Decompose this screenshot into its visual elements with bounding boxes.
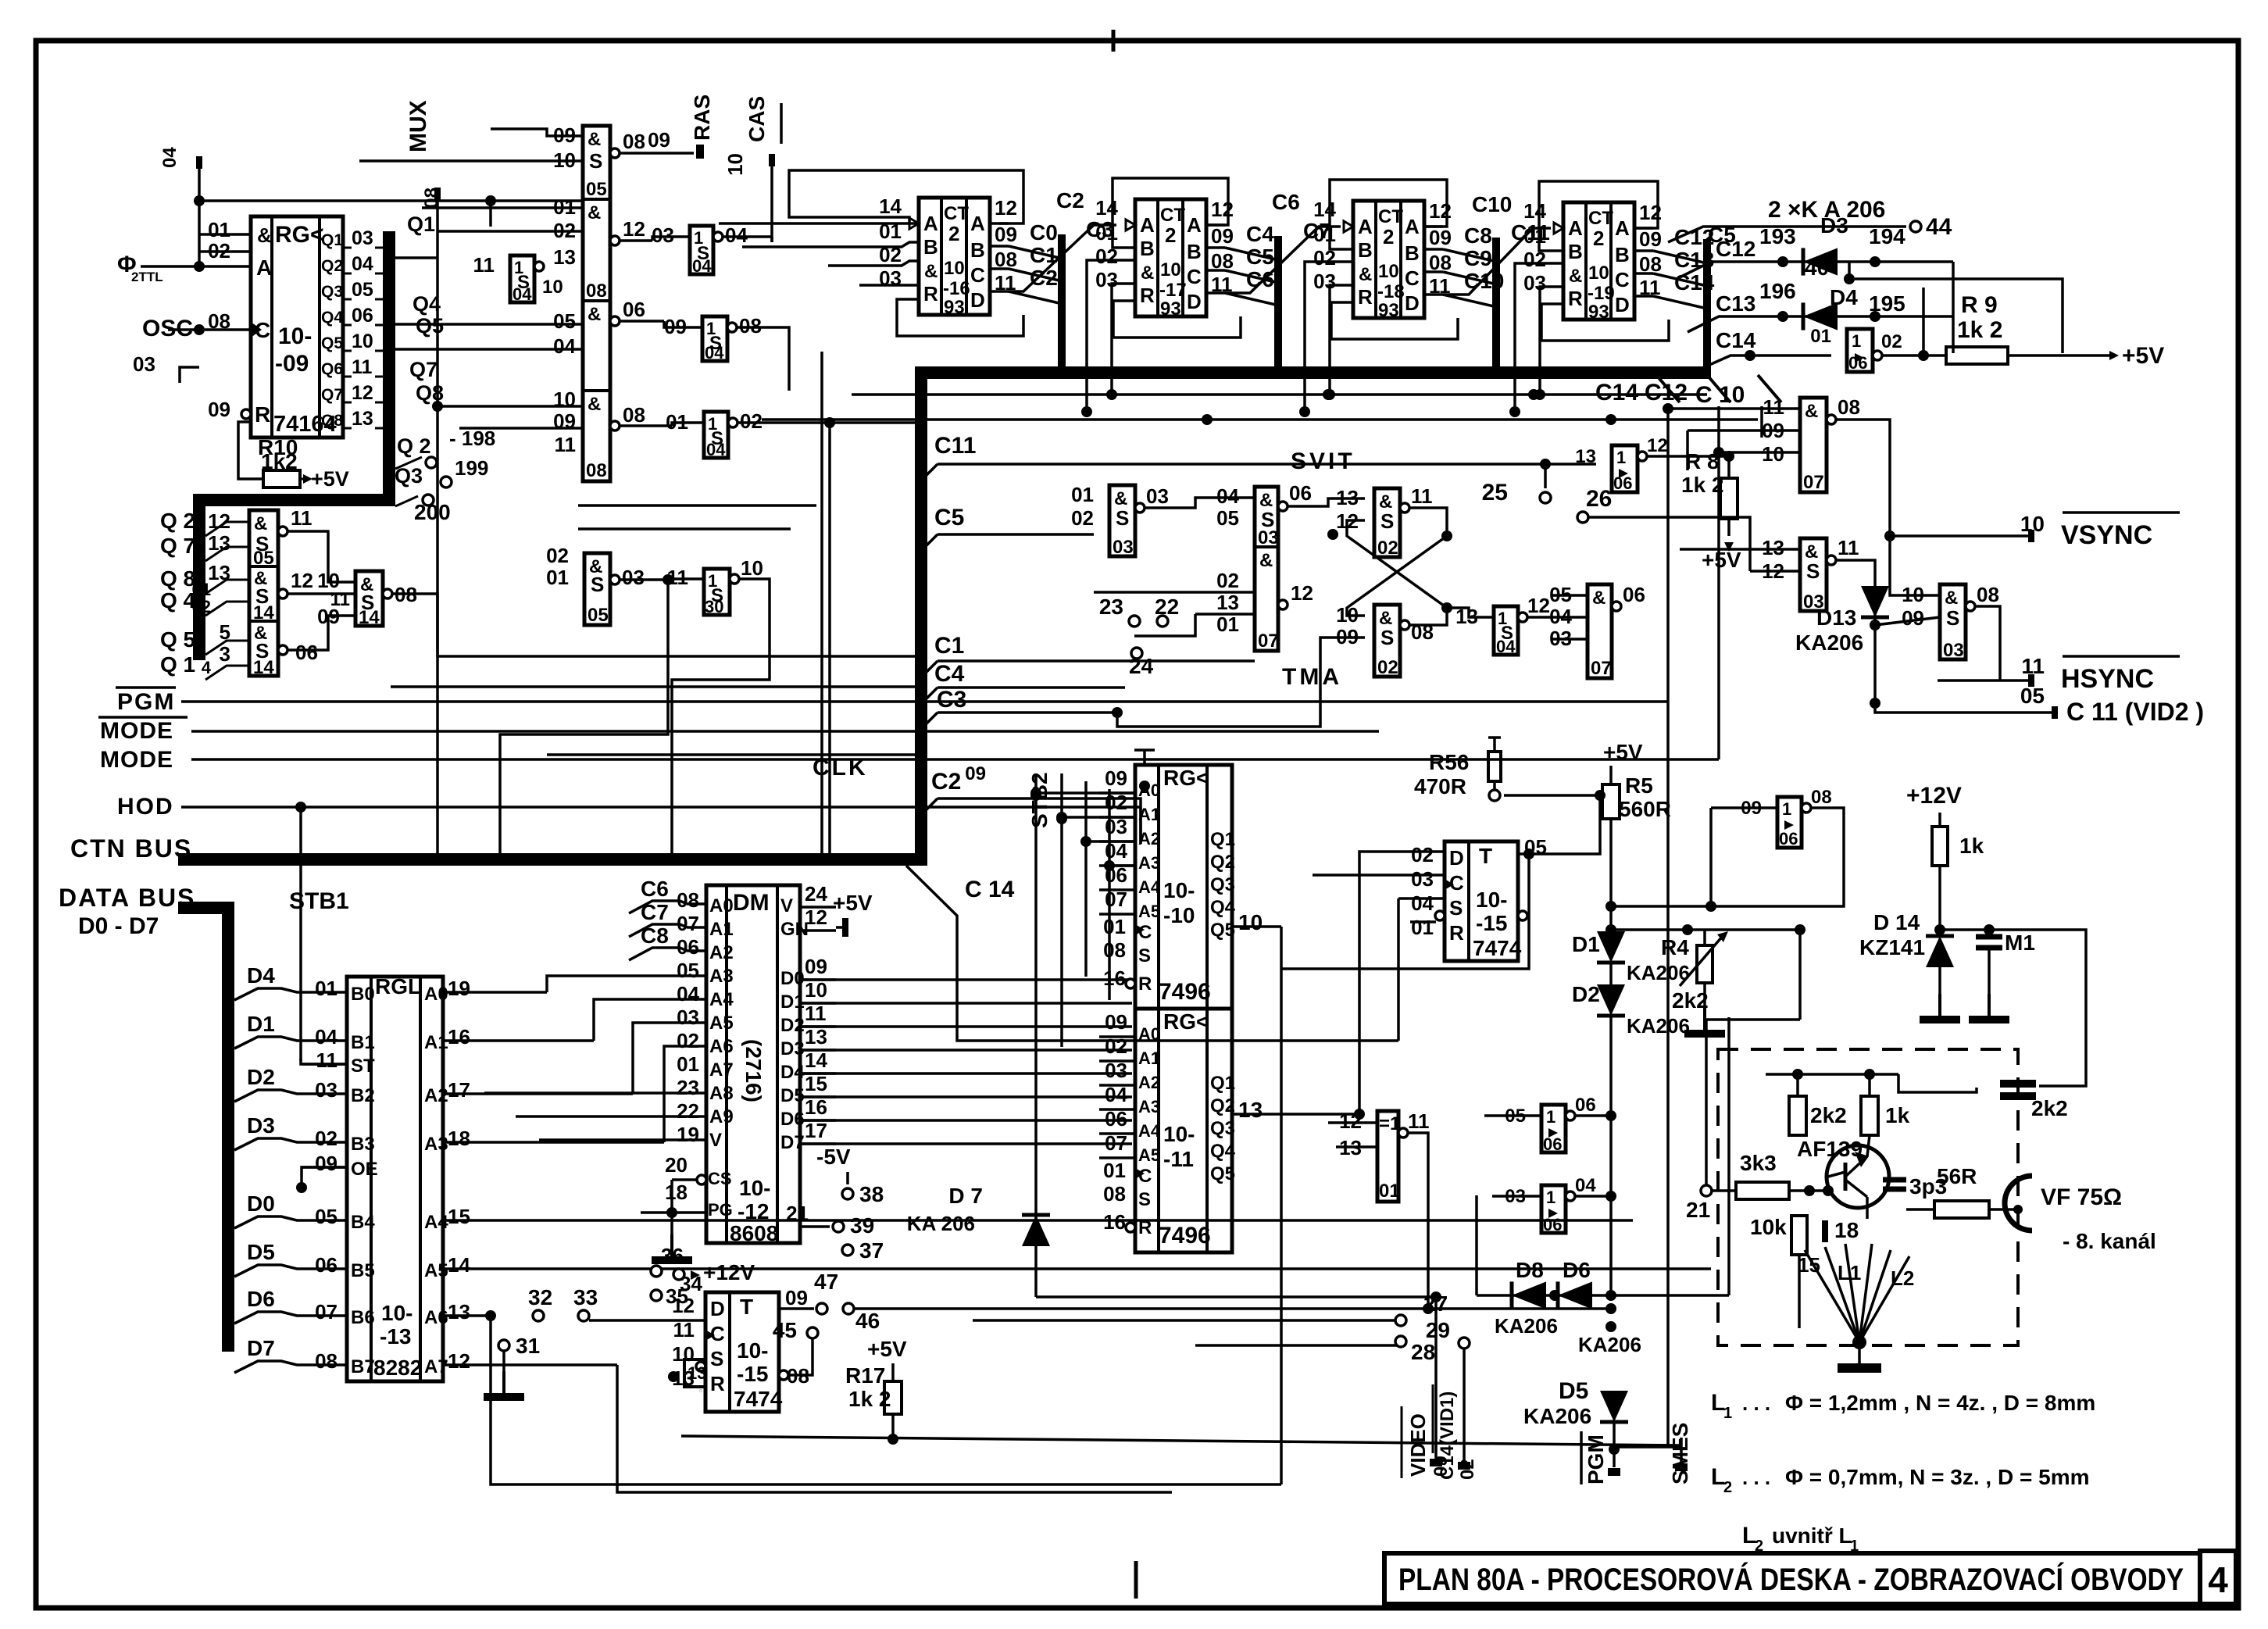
- svg-text:08: 08: [586, 460, 607, 481]
- svg-text:09: 09: [1429, 226, 1452, 249]
- svg-text:C8: C8: [1464, 223, 1492, 248]
- svg-text:D13: D13: [1816, 606, 1856, 630]
- svg-text:10: 10: [1762, 442, 1784, 466]
- svg-text:1k: 1k: [1959, 834, 1984, 858]
- svg-text:10k: 10k: [1750, 1215, 1787, 1239]
- svg-text:08: 08: [1811, 787, 1832, 808]
- svg-text:18: 18: [448, 1127, 470, 1150]
- svg-text:02: 02: [1105, 1034, 1127, 1058]
- svg-text:7496: 7496: [1159, 979, 1211, 1005]
- svg-text:A: A: [1405, 215, 1420, 238]
- svg-text:C5: C5: [1246, 245, 1274, 269]
- svg-text:KA206: KA206: [1627, 1014, 1690, 1038]
- svg-text:22: 22: [1155, 595, 1179, 619]
- svg-text:11: 11: [673, 1318, 695, 1341]
- svg-text:10: 10: [944, 258, 965, 279]
- svg-text:Q 5: Q 5: [160, 627, 195, 652]
- svg-text:C3: C3: [937, 687, 966, 713]
- svg-text:1: 1: [1850, 1538, 1859, 1555]
- svg-text:D: D: [970, 288, 985, 312]
- svg-text:12: 12: [352, 382, 373, 404]
- svg-text:C8: C8: [641, 923, 669, 948]
- svg-text:A: A: [256, 255, 272, 280]
- svg-text:03: 03: [1258, 527, 1279, 548]
- svg-text:1k: 1k: [1885, 1103, 1910, 1127]
- svg-text:10-: 10-: [1476, 888, 1507, 912]
- svg-text:C4: C4: [934, 661, 965, 687]
- svg-text:KA206: KA206: [1627, 961, 1690, 984]
- svg-text:Q 4: Q 4: [160, 588, 196, 613]
- svg-text:A1: A1: [1138, 1048, 1160, 1068]
- svg-text:29: 29: [1426, 1318, 1450, 1342]
- svg-text:12: 12: [805, 906, 827, 929]
- svg-text:C12: C12: [1645, 380, 1688, 405]
- svg-text:&: &: [1141, 263, 1154, 284]
- svg-text:03: 03: [1943, 640, 1964, 661]
- svg-text:A2: A2: [1138, 829, 1160, 848]
- svg-text:AF139: AF139: [1797, 1137, 1863, 1161]
- svg-text:A8: A8: [709, 1083, 734, 1104]
- svg-text:12: 12: [995, 196, 1017, 220]
- svg-text:05: 05: [586, 179, 607, 200]
- svg-text:D6: D6: [247, 1287, 275, 1311]
- svg-text:2: 2: [1593, 227, 1604, 250]
- svg-text:10: 10: [1238, 910, 1263, 934]
- svg-text:D1: D1: [247, 1012, 275, 1036]
- svg-text:C6: C6: [1246, 267, 1274, 291]
- svg-text:D 14: D 14: [1873, 910, 1920, 934]
- svg-text:B: B: [1405, 241, 1420, 265]
- svg-text:A4: A4: [1138, 1121, 1161, 1141]
- svg-text:06: 06: [1543, 1134, 1562, 1154]
- svg-text:C: C: [1187, 265, 1202, 288]
- svg-text:8282: 8282: [373, 1356, 422, 1380]
- svg-text:07: 07: [1258, 631, 1279, 652]
- svg-text:04: 04: [553, 334, 576, 358]
- svg-text:44: 44: [1926, 214, 1952, 240]
- svg-text:03: 03: [315, 1078, 338, 1102]
- svg-text:06: 06: [295, 641, 318, 664]
- svg-text:A1: A1: [1138, 805, 1160, 824]
- svg-text:D1: D1: [1572, 932, 1600, 956]
- svg-text:CT: CT: [944, 203, 969, 224]
- svg-text:CTN BUS: CTN BUS: [70, 834, 192, 863]
- svg-text:08: 08: [1838, 395, 1860, 419]
- svg-text:R: R: [1568, 287, 1583, 310]
- svg-text:A4: A4: [424, 1212, 448, 1233]
- svg-text:C14: C14: [1595, 380, 1638, 405]
- svg-text:B0: B0: [351, 984, 375, 1005]
- svg-text:24: 24: [1129, 654, 1154, 678]
- svg-text:21: 21: [786, 1202, 809, 1225]
- svg-text:B: B: [1615, 243, 1630, 266]
- svg-text:11: 11: [352, 356, 373, 378]
- svg-text:7496: 7496: [1159, 1223, 1211, 1249]
- svg-text:-5V: -5V: [816, 1145, 851, 1169]
- svg-text:KA206: KA206: [1795, 631, 1863, 655]
- svg-text:17: 17: [805, 1119, 827, 1142]
- svg-text:A9: A9: [709, 1106, 734, 1127]
- svg-text:A: A: [1568, 216, 1583, 240]
- svg-text:D: D: [1405, 291, 1420, 315]
- svg-text:05: 05: [1216, 506, 1239, 530]
- svg-text:VF 75Ω: VF 75Ω: [2041, 1184, 2122, 1210]
- svg-text:D2: D2: [1572, 982, 1600, 1006]
- svg-text:T: T: [740, 1295, 753, 1319]
- svg-text:R5: R5: [1625, 773, 1653, 798]
- svg-text:D: D: [1187, 290, 1202, 313]
- svg-text:11: 11: [555, 433, 577, 456]
- svg-text:02: 02: [740, 409, 763, 433]
- svg-text:&: &: [588, 394, 601, 415]
- svg-text:11: 11: [1763, 395, 1785, 419]
- svg-text:2k2: 2k2: [2031, 1096, 2068, 1120]
- svg-text:08: 08: [586, 280, 607, 302]
- svg-text:&: &: [1592, 588, 1605, 609]
- svg-text:A5: A5: [424, 1260, 448, 1281]
- svg-text:-11: -11: [1163, 1147, 1194, 1171]
- svg-text:1: 1: [1782, 799, 1791, 819]
- svg-text:05: 05: [315, 1205, 338, 1228]
- svg-text:R 9: R 9: [1961, 292, 1998, 318]
- svg-text:03: 03: [1146, 484, 1169, 508]
- svg-text:M1: M1: [2005, 931, 2035, 955]
- svg-text:C4: C4: [1246, 222, 1274, 246]
- svg-text:Q5: Q5: [1210, 1163, 1235, 1184]
- svg-text:2: 2: [1723, 1479, 1732, 1496]
- svg-text:C6: C6: [1272, 190, 1300, 214]
- svg-text:05: 05: [677, 959, 699, 982]
- svg-text:08: 08: [739, 314, 762, 338]
- svg-text:C: C: [1138, 1166, 1152, 1187]
- svg-text:12: 12: [1211, 198, 1234, 221]
- svg-text:13: 13: [1762, 536, 1784, 559]
- svg-text:KZ141: KZ141: [1859, 935, 1925, 959]
- svg-text:04: 04: [706, 440, 726, 459]
- svg-text:11: 11: [2021, 654, 2045, 678]
- svg-text:03: 03: [1113, 537, 1134, 558]
- svg-text:04: 04: [315, 1025, 338, 1048]
- svg-text:C14: C14: [1716, 328, 1756, 352]
- svg-text:Q1: Q1: [321, 231, 343, 249]
- svg-text:MODE: MODE: [100, 718, 173, 744]
- svg-text:56R: 56R: [1937, 1164, 1977, 1188]
- svg-text:02: 02: [1071, 506, 1094, 530]
- svg-text:S: S: [1946, 606, 1959, 630]
- svg-text:R: R: [1449, 921, 1464, 945]
- svg-text:06: 06: [1623, 583, 1645, 606]
- svg-text:Φ = 1,2mm , N = 4z. , D = 8: Φ = 1,2mm , N = 4z. , D = 8mm: [1785, 1391, 2095, 1415]
- svg-text:C 14: C 14: [965, 877, 1015, 902]
- svg-text:B: B: [970, 238, 985, 262]
- svg-text:D3: D3: [1820, 213, 1848, 238]
- svg-text:06: 06: [1613, 473, 1632, 493]
- svg-text:&: &: [1359, 264, 1372, 285]
- svg-text:D0 - D7: D0 - D7: [78, 913, 159, 939]
- svg-text:560R: 560R: [1619, 797, 1671, 821]
- svg-text:1: 1: [1616, 448, 1626, 467]
- svg-text:16: 16: [1103, 1210, 1126, 1234]
- svg-text:194: 194: [1869, 224, 1905, 248]
- svg-text:33: 33: [573, 1285, 598, 1309]
- svg-text:13: 13: [1216, 591, 1239, 614]
- svg-text:06: 06: [1575, 1095, 1596, 1116]
- svg-text:10-: 10-: [1163, 878, 1195, 902]
- svg-text:01: 01: [546, 566, 569, 589]
- svg-text:R17: R17: [845, 1363, 885, 1388]
- svg-text:CT: CT: [1588, 208, 1613, 229]
- svg-text:04: 04: [1575, 1175, 1596, 1196]
- svg-text:1: 1: [1546, 1107, 1555, 1127]
- svg-text:R56: R56: [1429, 750, 1469, 774]
- svg-text:13: 13: [553, 245, 576, 269]
- svg-text:. . .: . . .: [1742, 1466, 1770, 1489]
- svg-text:R: R: [710, 1372, 725, 1395]
- svg-text:14: 14: [1523, 199, 1546, 223]
- svg-text:B3: B3: [351, 1134, 375, 1155]
- svg-text:10: 10: [2020, 512, 2045, 536]
- svg-text:14: 14: [1313, 198, 1336, 221]
- svg-text:+5V: +5V: [833, 891, 873, 915]
- svg-text:A4: A4: [709, 989, 734, 1010]
- svg-text:D5: D5: [1559, 1378, 1588, 1404]
- svg-text:05: 05: [2020, 684, 2045, 708]
- svg-text:&: &: [1569, 266, 1582, 287]
- svg-text:C: C: [1138, 922, 1152, 943]
- svg-text:S: S: [1449, 896, 1463, 920]
- svg-text:199: 199: [455, 456, 488, 480]
- svg-text:R: R: [1358, 285, 1373, 309]
- svg-text:13: 13: [688, 1363, 706, 1383]
- svg-text:Q2: Q2: [1210, 1095, 1235, 1116]
- svg-text:B5: B5: [351, 1260, 375, 1281]
- svg-text:03: 03: [1105, 1059, 1127, 1082]
- svg-text:01: 01: [677, 1052, 699, 1076]
- svg-text:07: 07: [1105, 1131, 1127, 1155]
- svg-text:26: 26: [1586, 486, 1612, 512]
- svg-text:DATA BUS: DATA BUS: [59, 884, 195, 912]
- svg-text:A1: A1: [424, 1032, 448, 1053]
- svg-text:D 7: D 7: [948, 1184, 983, 1208]
- svg-text:Q3: Q3: [395, 464, 423, 488]
- svg-text:06: 06: [1289, 481, 1312, 505]
- svg-text:V: V: [780, 895, 793, 916]
- svg-text:10-: 10-: [739, 1176, 770, 1200]
- svg-text:A2: A2: [709, 942, 734, 963]
- svg-text:A7: A7: [709, 1059, 734, 1081]
- svg-text:32: 32: [528, 1285, 552, 1309]
- svg-text:A5: A5: [1138, 1145, 1160, 1165]
- svg-text:03: 03: [622, 566, 645, 589]
- svg-text:01: 01: [1379, 1181, 1400, 1202]
- svg-text:-15: -15: [1476, 911, 1507, 935]
- svg-text:23: 23: [1099, 595, 1123, 619]
- svg-text:(2716): (2716): [741, 1039, 766, 1102]
- svg-text:06: 06: [1779, 829, 1798, 848]
- svg-text:D3: D3: [247, 1113, 275, 1138]
- svg-text:10-: 10-: [737, 1338, 768, 1363]
- svg-text:KA 206: KA 206: [907, 1212, 975, 1235]
- svg-text:4: 4: [2208, 1559, 2228, 1600]
- svg-text:93: 93: [1378, 300, 1399, 321]
- svg-text:DM: DM: [733, 890, 770, 916]
- svg-text:03: 03: [1095, 268, 1118, 291]
- svg-text:A6: A6: [424, 1307, 448, 1328]
- svg-text:D6: D6: [1563, 1258, 1591, 1282]
- svg-text:uvnitř L: uvnitř L: [1772, 1524, 1852, 1548]
- svg-text:37: 37: [859, 1238, 884, 1263]
- svg-text:18: 18: [1834, 1218, 1859, 1242]
- svg-text:A: A: [923, 212, 938, 235]
- svg-text:-13: -13: [380, 1324, 411, 1349]
- svg-text:Q5: Q5: [416, 314, 444, 338]
- svg-text:D0: D0: [247, 1191, 275, 1216]
- svg-text:D2: D2: [247, 1065, 275, 1089]
- svg-text:Q1: Q1: [1210, 829, 1235, 850]
- svg-text:24: 24: [805, 882, 827, 906]
- svg-text:03: 03: [1313, 270, 1336, 293]
- svg-text:D: D: [710, 1297, 725, 1320]
- svg-text:V: V: [709, 1130, 722, 1151]
- svg-text:02: 02: [546, 544, 569, 567]
- svg-text:B4: B4: [351, 1212, 375, 1233]
- svg-text:08: 08: [1103, 938, 1126, 962]
- svg-text:16: 16: [805, 1095, 827, 1119]
- svg-text:19: 19: [448, 977, 470, 1000]
- svg-text:93: 93: [944, 297, 965, 318]
- svg-text:12: 12: [1647, 435, 1668, 456]
- svg-text:03: 03: [133, 352, 155, 376]
- svg-text:-18: -18: [1377, 281, 1405, 302]
- svg-text:09: 09: [785, 1286, 808, 1309]
- svg-text:STB2: STB2: [1027, 772, 1052, 828]
- svg-text:RGL: RGL: [375, 974, 421, 998]
- svg-text:KA206: KA206: [1523, 1404, 1591, 1428]
- svg-text:1: 1: [1723, 1405, 1732, 1422]
- svg-text:C5: C5: [934, 505, 964, 530]
- svg-text:17: 17: [448, 1078, 470, 1102]
- svg-text:A: A: [1615, 216, 1630, 240]
- svg-text:11: 11: [1408, 1109, 1430, 1133]
- svg-text:1: 1: [1546, 1188, 1555, 1207]
- svg-text:470R: 470R: [1414, 774, 1466, 798]
- svg-text:C10: C10: [1472, 192, 1512, 216]
- svg-text:2TTL: 2TTL: [131, 270, 163, 284]
- svg-text:02: 02: [1377, 657, 1398, 678]
- svg-text:46: 46: [855, 1309, 880, 1333]
- svg-text:39: 39: [850, 1213, 874, 1238]
- svg-text:7474: 7474: [1473, 936, 1522, 960]
- svg-text:B: B: [923, 235, 938, 259]
- svg-text:11: 11: [805, 1002, 827, 1025]
- svg-text:11: 11: [291, 506, 313, 530]
- svg-text:C2: C2: [1030, 266, 1058, 290]
- svg-text:B7: B7: [351, 1356, 375, 1377]
- svg-text:09: 09: [805, 955, 827, 978]
- svg-text:09: 09: [1639, 227, 1662, 251]
- svg-text:10-: 10-: [381, 1301, 413, 1325]
- svg-text:07: 07: [1105, 888, 1127, 911]
- svg-text:200: 200: [414, 500, 451, 524]
- svg-text:&: &: [588, 129, 601, 150]
- svg-text:04: 04: [692, 256, 712, 276]
- svg-text:23: 23: [677, 1076, 699, 1099]
- svg-text:05: 05: [253, 548, 274, 569]
- svg-text:06: 06: [1848, 353, 1867, 373]
- svg-text:- 8. kanál: - 8. kanál: [2063, 1229, 2156, 1253]
- svg-text:TMA: TMA: [1282, 664, 1342, 690]
- svg-text:2: 2: [1755, 1538, 1763, 1555]
- svg-text:VIDEO: VIDEO: [1406, 1413, 1430, 1477]
- svg-text:Q3: Q3: [1210, 1118, 1235, 1139]
- svg-text:2k2: 2k2: [1672, 988, 1709, 1013]
- svg-text:RAS: RAS: [690, 95, 714, 141]
- svg-text:03: 03: [352, 227, 373, 249]
- svg-text:- 198: - 198: [449, 427, 495, 450]
- svg-text:Q 7: Q 7: [160, 534, 195, 558]
- svg-text:C: C: [1449, 871, 1464, 895]
- svg-text:ST: ST: [351, 1056, 375, 1077]
- svg-text:C7: C7: [641, 900, 669, 924]
- svg-text:47: 47: [814, 1270, 838, 1294]
- svg-text:02: 02: [1457, 1459, 1478, 1480]
- svg-text:4: 4: [202, 658, 212, 677]
- svg-text:A3: A3: [1138, 853, 1160, 873]
- svg-text:A: A: [1187, 213, 1202, 237]
- svg-text:S: S: [710, 1347, 723, 1370]
- svg-text:12: 12: [1527, 594, 1550, 617]
- svg-text:-10: -10: [1163, 903, 1195, 927]
- svg-text:S: S: [1116, 506, 1129, 530]
- svg-text:S: S: [1380, 626, 1394, 649]
- svg-text:PG: PG: [708, 1200, 733, 1220]
- svg-text:A0: A0: [709, 895, 734, 916]
- svg-text:&: &: [924, 261, 938, 282]
- svg-text:Q3: Q3: [321, 283, 343, 301]
- svg-text:93: 93: [1588, 302, 1609, 323]
- svg-text:06: 06: [315, 1253, 338, 1277]
- svg-text:-16: -16: [943, 278, 970, 299]
- svg-text:SVIT: SVIT: [1291, 448, 1355, 474]
- svg-text:14: 14: [805, 1048, 827, 1072]
- svg-text:11: 11: [1838, 536, 1859, 559]
- svg-text:03: 03: [1523, 271, 1546, 295]
- svg-text:36: 36: [661, 1244, 684, 1267]
- svg-text:C: C: [970, 263, 985, 287]
- svg-text:13: 13: [805, 1025, 827, 1048]
- svg-text:02: 02: [1377, 538, 1398, 559]
- svg-text:OSC: OSC: [142, 316, 193, 341]
- svg-text:Q 2: Q 2: [397, 434, 431, 458]
- svg-text:18: 18: [665, 1181, 688, 1204]
- svg-text:Q5: Q5: [321, 334, 343, 352]
- svg-text:Q 1: Q 1: [160, 652, 195, 677]
- svg-text:CAS: CAS: [745, 96, 769, 142]
- svg-text:Q4: Q4: [1210, 897, 1236, 918]
- svg-text:A5: A5: [709, 1013, 734, 1034]
- svg-text:04: 04: [725, 223, 748, 247]
- svg-text:03: 03: [677, 1006, 699, 1029]
- svg-text:14: 14: [448, 1253, 470, 1277]
- svg-text:11: 11: [1411, 484, 1433, 508]
- svg-text:04: 04: [159, 147, 180, 168]
- svg-text:Q2: Q2: [1210, 852, 1235, 873]
- svg-text:Q8: Q8: [416, 381, 444, 405]
- svg-text:A2: A2: [1138, 1073, 1160, 1092]
- svg-text:3k3: 3k3: [1740, 1151, 1777, 1175]
- svg-text:A5: A5: [1138, 902, 1160, 921]
- svg-text:01: 01: [1411, 916, 1434, 939]
